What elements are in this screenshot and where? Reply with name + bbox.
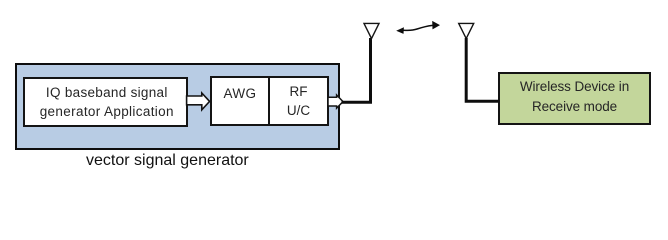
wire: RF output to left antenna (horizontal then vertical)	[342, 38, 371, 102]
right antenna triangle	[459, 23, 474, 38]
IQ baseband signal generator Application block	[23, 77, 188, 127]
right arrowhead of radio link	[432, 21, 440, 30]
Wireless Device in Receive mode block (green box)	[498, 72, 651, 125]
left arrowhead of radio link	[396, 27, 404, 34]
RF U/C block	[268, 76, 329, 126]
block arrow between IQ block and AWG block	[187, 93, 210, 110]
left antenna triangle	[364, 23, 379, 38]
curved double-headed arrow (radio link)	[404, 25, 433, 30]
wire: right antenna down and into green box	[466, 38, 498, 101]
vector signal generator enclosure (blue container box)	[15, 63, 340, 150]
AWG block	[210, 76, 270, 126]
block arrow at RF U/C output (exits blue enclosure)	[328, 95, 343, 108]
caption: vector signal generator	[86, 151, 249, 171]
